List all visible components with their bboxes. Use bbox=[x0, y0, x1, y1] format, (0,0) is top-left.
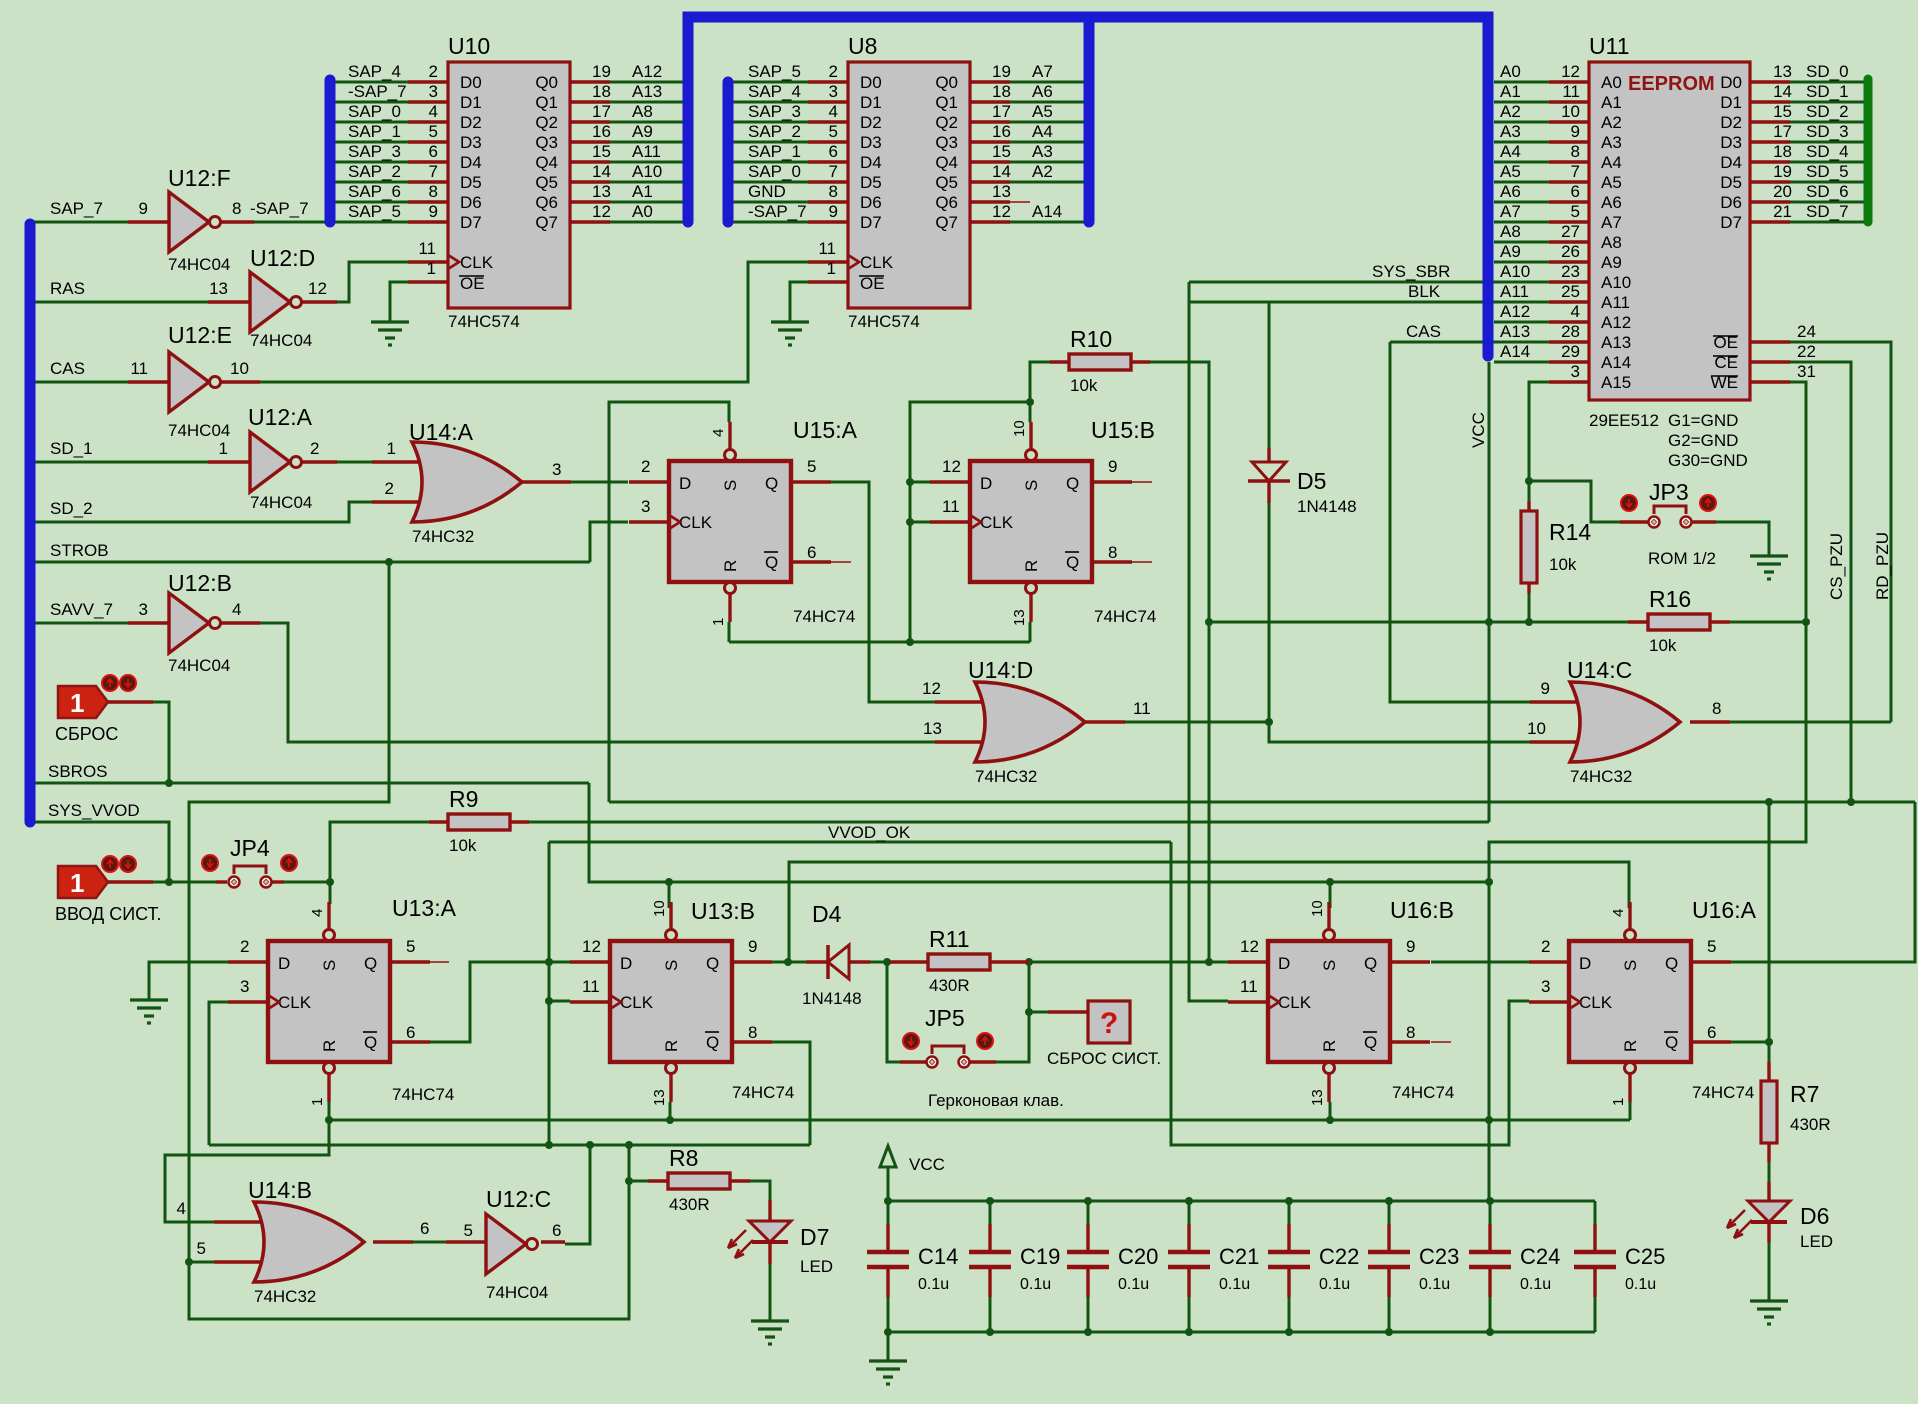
svg-text:G2=GND: G2=GND bbox=[1668, 431, 1738, 450]
svg-text:1N4148: 1N4148 bbox=[1297, 497, 1357, 516]
svg-text:R8: R8 bbox=[669, 1145, 698, 1171]
svg-text:A9: A9 bbox=[1500, 242, 1521, 261]
svg-text:5: 5 bbox=[464, 1221, 473, 1240]
junction R11 right node bbox=[1025, 958, 1033, 966]
wire to ?-box bbox=[1029, 1011, 1048, 1014]
wire to U15:B CLK bbox=[910, 521, 930, 524]
svg-text:A7: A7 bbox=[1032, 62, 1053, 81]
svg-text:D0: D0 bbox=[460, 73, 482, 92]
svg-text:A2: A2 bbox=[1032, 162, 1053, 181]
pin stubs U14:B bbox=[214, 1220, 268, 1223]
svg-text:A4: A4 bbox=[1032, 122, 1053, 141]
resistor R11 bbox=[928, 926, 990, 995]
svg-text:LED: LED bbox=[800, 1257, 833, 1276]
svg-text:10: 10 bbox=[230, 359, 249, 378]
svg-text:D6: D6 bbox=[1720, 193, 1742, 212]
junction R14/rail bbox=[1525, 618, 1533, 626]
junction S-set U13:B bbox=[665, 878, 673, 886]
wire U13:B S down bbox=[668, 882, 671, 908]
svg-text:CAS: CAS bbox=[1406, 322, 1441, 341]
wire VCC arrow to cap rail bbox=[887, 1167, 890, 1201]
IC U8 74HC574 bbox=[748, 33, 1062, 331]
wire JP4 to U13:A S bbox=[284, 881, 330, 884]
svg-text:A8: A8 bbox=[1601, 233, 1622, 252]
svg-text:D5: D5 bbox=[860, 173, 882, 192]
wire SYS_SBR horizontal to U11 A10 bbox=[1189, 281, 1549, 284]
svg-text:6: 6 bbox=[807, 543, 816, 562]
svg-text:A3: A3 bbox=[1500, 122, 1521, 141]
pin stubs U12:F bbox=[128, 220, 169, 223]
wire H2 down to R8 bbox=[628, 1145, 631, 1181]
svg-text:D3: D3 bbox=[460, 133, 482, 152]
wire STROB from bus bbox=[34, 561, 590, 564]
svg-text:SD_4: SD_4 bbox=[1806, 142, 1849, 161]
svg-text:VCC: VCC bbox=[909, 1155, 945, 1174]
svg-text:74HC74: 74HC74 bbox=[1692, 1083, 1754, 1102]
svg-text:13: 13 bbox=[923, 719, 942, 738]
svg-text:R: R bbox=[1022, 560, 1041, 572]
svg-text:SAP_0: SAP_0 bbox=[348, 102, 401, 121]
svg-text:6: 6 bbox=[1707, 1023, 1716, 1042]
junction R10 rail / R16 rail bbox=[1205, 618, 1213, 626]
resistor R10 bbox=[1069, 326, 1131, 395]
wire U13:A R down and to U14:B pin 4 bbox=[165, 1102, 329, 1222]
svg-text:ROM 1/2: ROM 1/2 bbox=[1648, 549, 1716, 568]
wire U12:E output to U8 CLK bbox=[260, 262, 808, 382]
junction reset line bbox=[906, 638, 914, 646]
flip-flop U16:A bbox=[1541, 897, 1757, 1106]
svg-text:2: 2 bbox=[310, 439, 319, 458]
svg-text:SAP_1: SAP_1 bbox=[348, 122, 401, 141]
svg-text:A1: A1 bbox=[632, 182, 653, 201]
junction R1A bbox=[325, 1116, 333, 1124]
wire node up to R9 bbox=[330, 822, 429, 882]
svg-text:A2: A2 bbox=[1601, 113, 1622, 132]
svg-text:A2: A2 bbox=[1500, 102, 1521, 121]
svg-text:D4: D4 bbox=[1720, 153, 1742, 172]
svg-text:27: 27 bbox=[1561, 222, 1580, 241]
svg-text:74HC04: 74HC04 bbox=[168, 656, 230, 675]
wire SAP_7 from bus to U12:F bbox=[34, 221, 128, 224]
junction VCC/S-line bbox=[1485, 878, 1493, 886]
capacitor C23 bbox=[1368, 1201, 1459, 1332]
junction U13:B D bbox=[545, 958, 553, 966]
svg-text:21: 21 bbox=[1773, 202, 1792, 221]
wire RAS from bus to U12:D bbox=[34, 301, 208, 304]
svg-text:CLK: CLK bbox=[980, 513, 1014, 532]
svg-text:A0: A0 bbox=[1601, 73, 1622, 92]
svg-text:SD_0: SD_0 bbox=[1806, 62, 1849, 81]
wire S-node to U15:B D/CLK rail bbox=[910, 402, 1030, 642]
svg-text:R: R bbox=[1621, 1040, 1640, 1052]
svg-text:SAP_1: SAP_1 bbox=[748, 142, 801, 161]
svg-text:C23: C23 bbox=[1419, 1244, 1459, 1269]
junction VCC/R16 rail bbox=[1485, 618, 1493, 626]
svg-text:U15:A: U15:A bbox=[793, 417, 858, 443]
svg-text:430R: 430R bbox=[929, 976, 970, 995]
svg-text:CLK: CLK bbox=[1278, 993, 1312, 1012]
svg-text:SD_7: SD_7 bbox=[1806, 202, 1849, 221]
svg-text:74HC04: 74HC04 bbox=[250, 493, 312, 512]
wire bottom rail to ground bbox=[887, 1332, 890, 1361]
svg-text:12: 12 bbox=[592, 202, 611, 221]
svg-text:Q3: Q3 bbox=[935, 133, 958, 152]
wire U15:A Q to U14:D pin 12 bbox=[831, 482, 935, 702]
svg-text:D0: D0 bbox=[1720, 73, 1742, 92]
junction SBROS-reset bbox=[165, 779, 173, 787]
svg-text:SAVV_7: SAVV_7 bbox=[50, 600, 113, 619]
svg-text:3: 3 bbox=[552, 460, 561, 479]
svg-text:A13: A13 bbox=[632, 82, 662, 101]
svg-text:D3: D3 bbox=[860, 133, 882, 152]
wire JP5 right pad to R11 node bbox=[969, 962, 1029, 1062]
svg-text:Q5: Q5 bbox=[535, 173, 558, 192]
svg-text:A5: A5 bbox=[1601, 173, 1622, 192]
svg-text:74HC74: 74HC74 bbox=[793, 607, 855, 626]
svg-text:A7: A7 bbox=[1601, 213, 1622, 232]
svg-text:VCC: VCC bbox=[1469, 412, 1488, 448]
svg-text:RD_PZU: RD_PZU bbox=[1873, 532, 1892, 600]
svg-text:U16:A: U16:A bbox=[1692, 897, 1757, 923]
svg-text:A14: A14 bbox=[1500, 342, 1530, 361]
svg-text:25: 25 bbox=[1561, 282, 1580, 301]
svg-text:SYS_VVOD: SYS_VVOD bbox=[48, 801, 140, 820]
svg-text:12: 12 bbox=[308, 279, 327, 298]
svg-text:10k: 10k bbox=[1549, 555, 1577, 574]
svg-text:6: 6 bbox=[829, 142, 838, 161]
pin stubs U8 right bbox=[970, 80, 1010, 83]
svg-text:6: 6 bbox=[1571, 182, 1580, 201]
svg-text:OE: OE bbox=[460, 274, 485, 293]
svg-text:D2: D2 bbox=[860, 113, 882, 132]
svg-text:Q: Q bbox=[364, 954, 377, 973]
svg-text:12: 12 bbox=[1240, 937, 1259, 956]
svg-text:31: 31 bbox=[1797, 362, 1816, 381]
svg-text:CLK: CLK bbox=[1579, 993, 1613, 1012]
svg-text:CS_PZU: CS_PZU bbox=[1827, 533, 1846, 600]
svg-text:1: 1 bbox=[387, 439, 396, 458]
svg-text:14: 14 bbox=[592, 162, 611, 181]
wire to U15:B D bbox=[910, 481, 930, 484]
svg-text:2: 2 bbox=[429, 62, 438, 81]
svg-text:5: 5 bbox=[429, 122, 438, 141]
svg-text:Q3: Q3 bbox=[535, 133, 558, 152]
wire C25 corners bbox=[1594, 1201, 1597, 1224]
svg-text:9: 9 bbox=[1541, 679, 1550, 698]
svg-text:17: 17 bbox=[1773, 122, 1792, 141]
svg-text:4: 4 bbox=[1610, 909, 1627, 917]
svg-text:A9: A9 bbox=[1601, 253, 1622, 272]
wire U13:B Q to D4 bbox=[770, 961, 806, 964]
wire U16:B S down bbox=[1329, 882, 1332, 908]
svg-text:D: D bbox=[980, 474, 992, 493]
svg-text:74HC74: 74HC74 bbox=[1392, 1083, 1454, 1102]
svg-text:A0: A0 bbox=[1500, 62, 1521, 81]
wire VVOD_OK down to U13:B D/CLK rail bbox=[548, 842, 551, 1145]
svg-text:D: D bbox=[679, 474, 691, 493]
svg-text:SD_1: SD_1 bbox=[1806, 82, 1849, 101]
wire VVOD_OK line bbox=[549, 841, 1171, 844]
ground bbox=[771, 322, 809, 345]
svg-text:7: 7 bbox=[829, 162, 838, 181]
svg-text:1: 1 bbox=[1610, 1098, 1627, 1106]
svg-text:A14: A14 bbox=[1601, 353, 1631, 372]
wire U11 OE to RD_PZU vertical bbox=[1790, 342, 1891, 722]
svg-text:5: 5 bbox=[1707, 937, 1716, 956]
wire S-set rail down to reset rail and cap rail bbox=[1488, 882, 1491, 1201]
svg-text:A12: A12 bbox=[632, 62, 662, 81]
IC U11 EEPROM 29EE512 bbox=[1500, 33, 1849, 470]
svg-text:14: 14 bbox=[992, 162, 1011, 181]
svg-text:VVOD_OK: VVOD_OK bbox=[828, 823, 911, 842]
svg-text:9: 9 bbox=[429, 202, 438, 221]
ground bbox=[130, 1000, 168, 1023]
jumper JP5 bbox=[925, 1005, 970, 1068]
svg-text:S: S bbox=[1320, 960, 1339, 971]
svg-text:A13: A13 bbox=[1601, 333, 1631, 352]
svg-text:8: 8 bbox=[1571, 142, 1580, 161]
capacitor C22 bbox=[1268, 1201, 1359, 1332]
junction U15:B D bbox=[906, 478, 914, 486]
svg-text:D4: D4 bbox=[812, 901, 842, 927]
or-gate U14:C bbox=[1567, 657, 1680, 786]
svg-text:0.1u: 0.1u bbox=[1419, 1276, 1450, 1293]
resistor R16 bbox=[1648, 586, 1710, 655]
svg-text:6: 6 bbox=[552, 1221, 561, 1240]
wire SBROS input arrow to SBROS line bbox=[153, 702, 169, 783]
svg-text:SAP_3: SAP_3 bbox=[748, 102, 801, 121]
svg-text:ВВОД СИСТ.: ВВОД СИСТ. bbox=[55, 904, 162, 924]
wire U15:A R down bbox=[728, 622, 731, 642]
svg-text:14: 14 bbox=[1773, 82, 1792, 101]
svg-text:D3: D3 bbox=[1720, 133, 1742, 152]
svg-text:13: 13 bbox=[651, 1089, 668, 1106]
resistor R7 bbox=[1761, 1081, 1831, 1143]
svg-text:15: 15 bbox=[592, 142, 611, 161]
pin stubs resistors/diodes/jumpers bbox=[429, 820, 448, 823]
pin stubs U12:A bbox=[208, 460, 250, 463]
wire U15:A S to Q5 rail bbox=[609, 402, 729, 802]
pin stubs U12:E bbox=[128, 380, 169, 383]
svg-text:D5: D5 bbox=[1297, 468, 1326, 494]
resistor R8 bbox=[668, 1145, 730, 1214]
junction Q5-line / CS_PZU bbox=[1847, 798, 1855, 806]
probe markers bbox=[202, 855, 218, 871]
svg-text:R16: R16 bbox=[1649, 586, 1691, 612]
svg-text:-SAP_7: -SAP_7 bbox=[250, 199, 309, 218]
svg-text:20: 20 bbox=[1773, 182, 1792, 201]
svg-text:13: 13 bbox=[592, 182, 611, 201]
wire U16:A R down bbox=[1629, 1102, 1632, 1120]
svg-text:SD_2: SD_2 bbox=[50, 499, 93, 518]
svg-text:28: 28 bbox=[1561, 322, 1580, 341]
svg-text:430R: 430R bbox=[669, 1195, 710, 1214]
svg-text:26: 26 bbox=[1561, 242, 1580, 261]
svg-text:5: 5 bbox=[406, 937, 415, 956]
pin stubs U14:A bbox=[372, 460, 426, 463]
svg-text:0.1u: 0.1u bbox=[1520, 1276, 1551, 1293]
wire U16:B Q to U16:A D bbox=[1431, 961, 1529, 964]
svg-text:0.1u: 0.1u bbox=[1020, 1276, 1051, 1293]
svg-text:D: D bbox=[1579, 954, 1591, 973]
svg-text:4: 4 bbox=[232, 600, 241, 619]
svg-text:74HC74: 74HC74 bbox=[392, 1085, 454, 1104]
wire to R8 bbox=[629, 1180, 648, 1183]
capacitor C19 bbox=[969, 1201, 1060, 1332]
svg-text:74HC74: 74HC74 bbox=[1094, 607, 1156, 626]
flip-flop U13:A bbox=[240, 895, 457, 1106]
wire BLK vertical with D5 bbox=[1268, 302, 1271, 448]
pin stubs flip-flops bbox=[629, 480, 669, 483]
svg-text:Q: Q bbox=[1066, 553, 1079, 572]
svg-text:3: 3 bbox=[1541, 977, 1550, 996]
svg-text:D7: D7 bbox=[1720, 213, 1742, 232]
svg-text:11: 11 bbox=[1240, 977, 1258, 996]
svg-text:19: 19 bbox=[992, 62, 1011, 81]
wire U12:D output to U10 CLK bbox=[337, 262, 408, 302]
svg-text:D2: D2 bbox=[1720, 113, 1742, 132]
wire U15:B S stub wire bbox=[1029, 402, 1032, 422]
svg-text:A11: A11 bbox=[632, 142, 661, 161]
svg-text:74HC04: 74HC04 bbox=[250, 331, 312, 350]
pin stubs U11 data bbox=[1750, 80, 1790, 83]
inverter U12:B bbox=[168, 570, 232, 675]
svg-text:Q: Q bbox=[364, 1033, 377, 1052]
wire U10 OE to ground bbox=[390, 282, 408, 322]
svg-text:9: 9 bbox=[1108, 457, 1117, 476]
svg-text:Q: Q bbox=[765, 474, 778, 493]
junction LED branch bbox=[1765, 1038, 1773, 1046]
svg-text:RAS: RAS bbox=[50, 279, 85, 298]
svg-text:D: D bbox=[1278, 954, 1290, 973]
wire U15 reset line bbox=[729, 641, 1030, 644]
wire R9 right to VCC rail bbox=[529, 821, 1489, 824]
wire SAVV_7 from bus to U12:B bbox=[34, 622, 128, 625]
svg-text:СБРОС СИСТ.: СБРОС СИСТ. bbox=[1047, 1049, 1161, 1068]
svg-text:A10: A10 bbox=[1500, 262, 1530, 281]
svg-text:SAP_4: SAP_4 bbox=[348, 62, 401, 81]
junction R16/WE bbox=[1802, 618, 1810, 626]
svg-text:D1: D1 bbox=[860, 93, 882, 112]
wire U12:A output to U14:A pin 1 bbox=[337, 461, 372, 464]
input terminal СБРОС bbox=[58, 686, 108, 718]
svg-text:74HC04: 74HC04 bbox=[486, 1283, 548, 1302]
svg-text:U12:D: U12:D bbox=[250, 245, 315, 271]
svg-text:SAP_5: SAP_5 bbox=[348, 202, 401, 221]
svg-text:R14: R14 bbox=[1549, 519, 1591, 545]
svg-text:10: 10 bbox=[1309, 900, 1326, 917]
svg-text:JP4: JP4 bbox=[230, 835, 270, 861]
svg-text:Q4: Q4 bbox=[535, 153, 558, 172]
wire R16 rail bbox=[1209, 621, 1648, 624]
svg-text:U14:B: U14:B bbox=[248, 1177, 312, 1203]
svg-text:D4: D4 bbox=[860, 153, 882, 172]
svg-text:A6: A6 bbox=[1601, 193, 1622, 212]
svg-text:A4: A4 bbox=[1601, 153, 1622, 172]
svg-text:D5: D5 bbox=[460, 173, 482, 192]
junction Q9 node bbox=[784, 958, 792, 966]
wire cap top rail bbox=[888, 1200, 1595, 1203]
svg-text:17: 17 bbox=[992, 102, 1011, 121]
svg-text:29: 29 bbox=[1561, 342, 1580, 361]
wire D7 cathode to ground bbox=[769, 1264, 772, 1321]
svg-text:U16:B: U16:B bbox=[1390, 897, 1454, 923]
svg-text:A5: A5 bbox=[1032, 102, 1053, 121]
svg-text:1: 1 bbox=[70, 688, 84, 718]
svg-text:16: 16 bbox=[592, 122, 611, 141]
power symbol VCC bbox=[880, 1146, 945, 1174]
svg-text:74HC04: 74HC04 bbox=[168, 255, 230, 274]
svg-text:9: 9 bbox=[829, 202, 838, 221]
svg-text:A11: A11 bbox=[1500, 282, 1529, 301]
pin stubs U11 OE CE WE bbox=[1750, 340, 1790, 343]
svg-text:U10: U10 bbox=[448, 33, 490, 59]
svg-text:13: 13 bbox=[1011, 609, 1028, 626]
svg-text:A14: A14 bbox=[1032, 202, 1062, 221]
wire Qbar6 to LED branch bbox=[1730, 1041, 1769, 1044]
svg-text:CAS: CAS bbox=[50, 359, 85, 378]
wire U16:B R down bbox=[1329, 1102, 1332, 1120]
svg-text:A3: A3 bbox=[1032, 142, 1053, 161]
junction H2/U12:C out bbox=[586, 1141, 594, 1149]
wire SYS_VVOD from bus bbox=[34, 822, 169, 882]
svg-text:D7: D7 bbox=[800, 1224, 829, 1250]
svg-text:Q: Q bbox=[1364, 1033, 1377, 1052]
svg-text:3: 3 bbox=[240, 977, 249, 996]
svg-text:D1: D1 bbox=[1720, 93, 1742, 112]
wire clock rail H2 bbox=[209, 1144, 810, 1147]
svg-text:A7: A7 bbox=[1500, 202, 1521, 221]
svg-text:74HC74: 74HC74 bbox=[732, 1083, 794, 1102]
svg-text:Q0: Q0 bbox=[935, 73, 958, 92]
junction D5/BLK node bbox=[1265, 718, 1273, 726]
svg-text:Q: Q bbox=[1364, 954, 1377, 973]
wire Q5 of U16:A up bbox=[1730, 802, 1915, 962]
pin stubs U10 left bbox=[408, 80, 448, 83]
svg-text:12: 12 bbox=[942, 457, 961, 476]
svg-text:22: 22 bbox=[1797, 342, 1816, 361]
wire SBROS from bus bbox=[34, 782, 589, 785]
svg-text:4: 4 bbox=[177, 1199, 186, 1218]
junction Qbar/D rail bbox=[545, 958, 553, 966]
wire U11 WE down to S-set rail bbox=[1489, 382, 1806, 882]
junction ?-box tap bbox=[1025, 1008, 1033, 1016]
svg-text:S: S bbox=[662, 960, 681, 971]
svg-text:SAP_7: SAP_7 bbox=[50, 199, 103, 218]
svg-text:-SAP_7: -SAP_7 bbox=[748, 202, 807, 221]
svg-text:6: 6 bbox=[406, 1023, 415, 1042]
svg-text:D: D bbox=[620, 954, 632, 973]
capacitor C20 bbox=[1067, 1201, 1158, 1332]
svg-text:SAP_3: SAP_3 bbox=[348, 142, 401, 161]
svg-text:SAP_2: SAP_2 bbox=[748, 122, 801, 141]
svg-text:29EE512: 29EE512 bbox=[1589, 411, 1659, 430]
svg-text:10: 10 bbox=[651, 900, 668, 917]
junction U15:B CLK bbox=[906, 518, 914, 526]
wire VVOD to JP4 bbox=[153, 881, 216, 884]
junction H2/R8 bbox=[625, 1141, 633, 1149]
junction STROB bbox=[385, 558, 393, 566]
svg-text:13: 13 bbox=[992, 182, 1011, 201]
svg-text:Герконовая клав.: Герконовая клав. bbox=[928, 1091, 1064, 1110]
diode D5 1N4148 bbox=[1248, 462, 1357, 516]
svg-text:Q7: Q7 bbox=[535, 213, 558, 232]
svg-text:U12:C: U12:C bbox=[486, 1186, 551, 1212]
svg-text:СБРОС: СБРОС bbox=[55, 724, 118, 744]
wire R11 node to U16:B D bbox=[1029, 961, 1228, 964]
svg-text:0.1u: 0.1u bbox=[1118, 1276, 1149, 1293]
wire U12:C output up to H2 bbox=[565, 1145, 590, 1244]
